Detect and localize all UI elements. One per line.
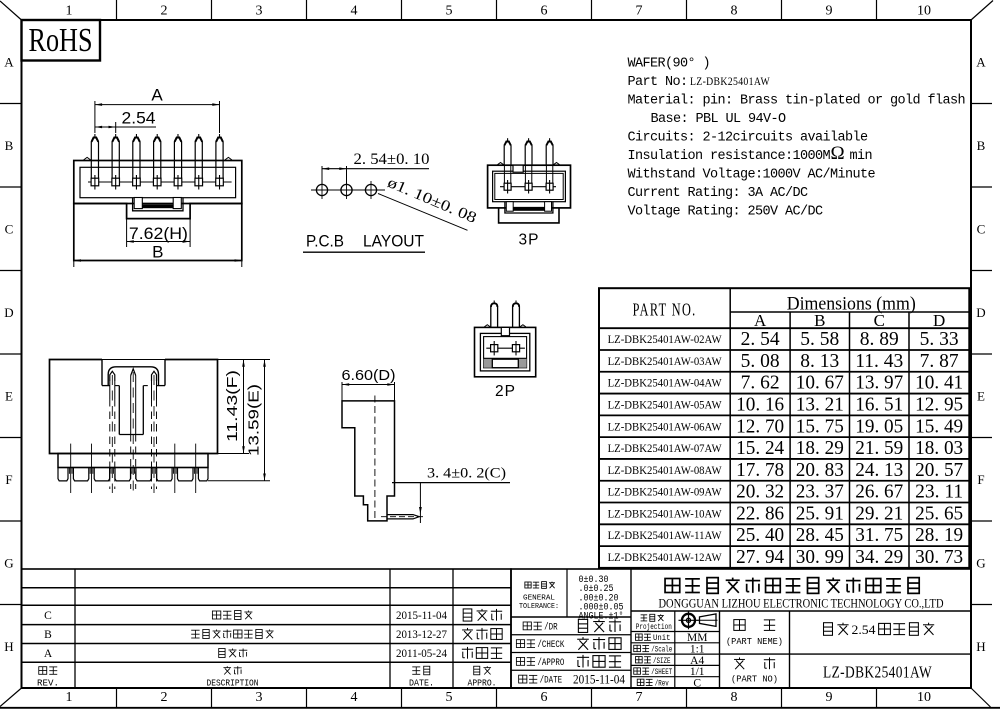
svg-text:10. 67: 10. 67 xyxy=(796,372,844,394)
svg-text:Dimensions (mm): Dimensions (mm) xyxy=(787,294,916,315)
svg-text:LZ-DBK25401AW-11AW: LZ-DBK25401AW-11AW xyxy=(608,530,722,542)
svg-text:13.59(E): 13.59(E) xyxy=(246,384,263,456)
svg-text:31. 75: 31. 75 xyxy=(855,524,903,546)
svg-text:15. 75: 15. 75 xyxy=(796,415,844,437)
svg-text:E: E xyxy=(977,388,985,403)
svg-text:2015-11-04: 2015-11-04 xyxy=(396,610,447,622)
svg-text:8. 89: 8. 89 xyxy=(860,328,899,350)
svg-text:8: 8 xyxy=(731,4,738,19)
svg-text:LZ-DBK25401AW: LZ-DBK25401AW xyxy=(690,74,770,88)
svg-text:20. 32: 20. 32 xyxy=(736,481,784,503)
svg-text:5. 58: 5. 58 xyxy=(800,328,839,350)
svg-text:PART NO.: PART NO. xyxy=(633,300,697,320)
svg-text:/Scale: /Scale xyxy=(651,645,672,654)
svg-text:24. 13: 24. 13 xyxy=(855,459,903,481)
svg-text:6.60(D): 6.60(D) xyxy=(342,368,396,384)
svg-text:G: G xyxy=(4,555,13,570)
svg-text:LAYOUT: LAYOUT xyxy=(363,233,424,251)
svg-text:A4: A4 xyxy=(690,655,704,667)
svg-text:LZ-DBK25401AW-09AW: LZ-DBK25401AW-09AW xyxy=(608,487,722,499)
svg-text:LZ-DBK25401AW-03AW: LZ-DBK25401AW-03AW xyxy=(608,356,722,368)
svg-text:B: B xyxy=(44,629,52,641)
svg-text:25. 91: 25. 91 xyxy=(796,502,844,524)
svg-text:8. 13: 8. 13 xyxy=(800,350,839,372)
svg-text:(PART NO): (PART NO) xyxy=(731,674,778,685)
svg-text:3: 3 xyxy=(256,4,263,19)
svg-text:18. 03: 18. 03 xyxy=(915,437,963,459)
svg-text:D: D xyxy=(4,305,13,320)
svg-text:29. 21: 29. 21 xyxy=(855,502,903,524)
svg-text:A: A xyxy=(4,54,14,69)
svg-text:20. 57: 20. 57 xyxy=(915,459,963,481)
svg-text:B: B xyxy=(5,138,14,153)
svg-text:25. 40: 25. 40 xyxy=(736,524,784,546)
svg-text:E: E xyxy=(5,388,13,403)
svg-text:2013-12-27: 2013-12-27 xyxy=(396,629,447,641)
svg-text:D: D xyxy=(976,305,985,320)
svg-text:26. 67: 26. 67 xyxy=(855,481,903,503)
svg-text:2.54: 2.54 xyxy=(852,623,877,637)
svg-text:27. 94: 27. 94 xyxy=(736,546,784,568)
svg-text:30. 99: 30. 99 xyxy=(796,546,844,568)
svg-text:17. 78: 17. 78 xyxy=(736,459,784,481)
svg-text:4: 4 xyxy=(351,4,358,19)
svg-text:11. 43: 11. 43 xyxy=(855,350,903,372)
svg-text:8: 8 xyxy=(731,690,738,705)
svg-text:LZ-DBK25401AW-06AW: LZ-DBK25401AW-06AW xyxy=(608,421,722,433)
svg-text:C: C xyxy=(44,610,52,622)
svg-text:13. 97: 13. 97 xyxy=(855,372,903,394)
svg-text:19. 05: 19. 05 xyxy=(855,415,903,437)
svg-text:C: C xyxy=(977,221,986,236)
svg-text:2. 54: 2. 54 xyxy=(741,328,780,350)
svg-text:G: G xyxy=(976,555,985,570)
svg-text:1/1: 1/1 xyxy=(690,666,705,678)
svg-text:2015-11-04: 2015-11-04 xyxy=(573,673,626,687)
svg-text:5. 08: 5. 08 xyxy=(741,350,780,372)
svg-text:15. 49: 15. 49 xyxy=(915,415,963,437)
svg-text:16. 51: 16. 51 xyxy=(855,393,903,415)
svg-text:H: H xyxy=(4,639,13,654)
svg-text:2. 54±0. 10: 2. 54±0. 10 xyxy=(354,151,430,168)
svg-text:ANGLE.±1°: ANGLE.±1° xyxy=(579,610,624,622)
svg-text:12. 95: 12. 95 xyxy=(915,393,963,415)
svg-text:Unit: Unit xyxy=(653,634,671,643)
svg-text:/DATE: /DATE xyxy=(540,675,563,687)
svg-text:A: A xyxy=(151,86,163,105)
svg-text:REV.: REV. xyxy=(37,678,59,689)
svg-text:23. 37: 23. 37 xyxy=(796,481,844,503)
svg-text:7: 7 xyxy=(636,690,643,705)
svg-text:10. 16: 10. 16 xyxy=(736,393,784,415)
svg-text:15. 24: 15. 24 xyxy=(736,437,784,459)
svg-text:5: 5 xyxy=(446,690,453,705)
svg-text:1: 1 xyxy=(66,4,73,19)
svg-text:B: B xyxy=(977,138,986,153)
svg-text:min: min xyxy=(850,149,873,164)
svg-text:9: 9 xyxy=(826,4,833,19)
svg-text:6: 6 xyxy=(541,690,548,705)
svg-text:2P: 2P xyxy=(495,383,516,400)
svg-text:Base: PBL UL 94V-O: Base: PBL UL 94V-O xyxy=(651,112,787,127)
svg-text:F: F xyxy=(977,472,984,487)
svg-text:/SIZE: /SIZE xyxy=(653,657,671,666)
svg-text:/SHEET: /SHEET xyxy=(651,668,672,677)
svg-text:13. 21: 13. 21 xyxy=(796,393,844,415)
svg-text:3. 4±0. 2(C): 3. 4±0. 2(C) xyxy=(427,466,506,482)
svg-text:20. 83: 20. 83 xyxy=(796,459,844,481)
svg-text:22. 86: 22. 86 xyxy=(736,502,784,524)
svg-text:/CHECK: /CHECK xyxy=(537,639,564,651)
svg-text:9: 9 xyxy=(826,690,833,705)
svg-text:A: A xyxy=(44,648,53,660)
svg-text:30. 73: 30. 73 xyxy=(915,546,963,568)
svg-text:Ω: Ω xyxy=(831,143,845,164)
svg-text:LZ-DBK25401AW-07AW: LZ-DBK25401AW-07AW xyxy=(608,443,722,455)
svg-text:7.62(H): 7.62(H) xyxy=(129,224,188,243)
svg-text:10: 10 xyxy=(917,690,931,705)
svg-text:10. 41: 10. 41 xyxy=(915,372,963,394)
svg-text:C: C xyxy=(5,221,14,236)
svg-text:LZ-DBK25401AW-12AW: LZ-DBK25401AW-12AW xyxy=(608,552,722,564)
svg-text:/Rev: /Rev xyxy=(655,679,669,688)
svg-text:APPRO.: APPRO. xyxy=(468,678,497,689)
svg-text:2: 2 xyxy=(161,4,168,19)
svg-text:21. 59: 21. 59 xyxy=(855,437,903,459)
svg-text:2011-05-24: 2011-05-24 xyxy=(396,648,447,660)
svg-text:LZ-DBK25401AW: LZ-DBK25401AW xyxy=(823,663,932,682)
svg-text:5: 5 xyxy=(446,4,453,19)
svg-text:P.C.B: P.C.B xyxy=(306,233,344,251)
svg-text:(PART NEME): (PART NEME) xyxy=(726,636,783,647)
svg-text:GENERAL: GENERAL xyxy=(523,595,555,603)
svg-text:Current Rating: 3A AC/DC: Current Rating: 3A AC/DC xyxy=(628,186,809,201)
svg-text:Part No:: Part No: xyxy=(628,75,688,90)
svg-text:1:1: 1:1 xyxy=(690,643,705,655)
svg-text:LZ-DBK25401AW-05AW: LZ-DBK25401AW-05AW xyxy=(608,399,722,411)
svg-text:A: A xyxy=(976,54,986,69)
svg-text:DESCRIPTION: DESCRIPTION xyxy=(207,678,259,689)
svg-text:18. 29: 18. 29 xyxy=(796,437,844,459)
svg-text:23. 11: 23. 11 xyxy=(915,481,963,503)
svg-text:34. 29: 34. 29 xyxy=(855,546,903,568)
svg-text:RoHS: RoHS xyxy=(29,22,93,59)
svg-text:3P: 3P xyxy=(519,232,540,249)
svg-text:7. 62: 7. 62 xyxy=(741,372,780,394)
svg-text:28. 19: 28. 19 xyxy=(915,524,963,546)
svg-text:Withstand Voltage:1000V AC/Min: Withstand Voltage:1000V AC/Minute xyxy=(628,168,876,183)
svg-text:TOLERANCE:: TOLERANCE: xyxy=(519,603,559,611)
svg-text:H: H xyxy=(976,639,985,654)
svg-text:Insulation resistance:1000M: Insulation resistance:1000M xyxy=(628,149,831,164)
svg-text:28. 45: 28. 45 xyxy=(796,524,844,546)
svg-text:2: 2 xyxy=(161,690,168,705)
svg-text:Voltage Rating: 250V AC/DC: Voltage Rating: 250V AC/DC xyxy=(628,205,824,220)
svg-text:4: 4 xyxy=(351,690,358,705)
svg-text:6: 6 xyxy=(541,4,548,19)
svg-text:WAFER(90° ): WAFER(90° ) xyxy=(628,57,711,72)
svg-text:B: B xyxy=(152,243,163,262)
svg-text:10: 10 xyxy=(917,4,931,19)
svg-text:3: 3 xyxy=(256,690,263,705)
svg-text:7. 87: 7. 87 xyxy=(920,350,959,372)
svg-text:2.54: 2.54 xyxy=(122,110,156,128)
svg-text:LZ-DBK25401AW-04AW: LZ-DBK25401AW-04AW xyxy=(608,378,722,390)
svg-text:DATE.: DATE. xyxy=(409,678,434,689)
svg-text:1: 1 xyxy=(66,690,73,705)
svg-text:11.43(F): 11.43(F) xyxy=(224,370,241,442)
svg-text:Projection: Projection xyxy=(636,622,672,632)
svg-text:5. 33: 5. 33 xyxy=(920,328,959,350)
svg-text:DONGGUAN LIZHOU ELECTRONIC TEC: DONGGUAN LIZHOU ELECTRONIC TECHNOLOGY CO… xyxy=(659,596,944,611)
svg-text:/DR: /DR xyxy=(544,621,558,633)
svg-text:MM: MM xyxy=(687,632,707,644)
svg-text:C: C xyxy=(693,677,701,689)
svg-text:F: F xyxy=(5,472,12,487)
svg-text:7: 7 xyxy=(636,4,643,19)
svg-text:25. 65: 25. 65 xyxy=(915,502,963,524)
svg-text:12. 70: 12. 70 xyxy=(736,415,784,437)
svg-text:LZ-DBK25401AW-08AW: LZ-DBK25401AW-08AW xyxy=(608,465,722,477)
svg-text:/APPRO: /APPRO xyxy=(537,657,564,669)
svg-text:Material: pin: Brass tin-plate: Material: pin: Brass tin-plated or gold … xyxy=(628,94,966,109)
svg-text:LZ-DBK25401AW-10AW: LZ-DBK25401AW-10AW xyxy=(608,508,722,520)
svg-text:LZ-DBK25401AW-02AW: LZ-DBK25401AW-02AW xyxy=(608,334,722,346)
